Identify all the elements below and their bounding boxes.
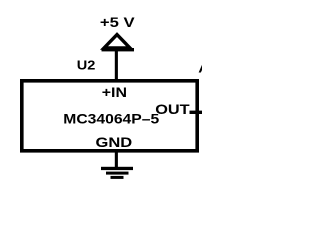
svg-text:U2: U2 <box>77 58 96 72</box>
wire from GND pin to ground <box>115 150 118 167</box>
wire from +5V to +IN pin <box>115 50 118 81</box>
svg-text:OUT: OUT <box>155 102 190 118</box>
svg-text:GND: GND <box>96 135 133 151</box>
power symbol +5V (open arrow) <box>104 35 130 48</box>
svg-text:+IN: +IN <box>102 85 127 101</box>
ground symbol bar 1 <box>101 167 133 170</box>
svg-text:A: A <box>198 62 202 76</box>
ground symbol bar 2 <box>106 172 129 175</box>
ground symbol bar 3 <box>111 176 124 179</box>
svg-text:MC34064P–5: MC34064P–5 <box>63 112 159 127</box>
IC body U2 MC34064P-5 <box>22 81 197 151</box>
OUT pin stub wire <box>190 111 203 114</box>
svg-text:+5 V: +5 V <box>100 15 136 30</box>
power symbol base bar <box>102 48 135 51</box>
